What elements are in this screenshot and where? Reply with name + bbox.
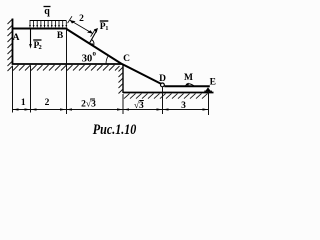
svg-text:E: E [210, 78, 216, 88]
svg-text:q: q [44, 6, 50, 17]
dimension 2 along incline: extension ticks [68, 16, 95, 36]
svg-text:1: 1 [105, 25, 108, 32]
svg-text:2: 2 [39, 44, 42, 51]
step face hatching [119, 67, 124, 94]
lower ground hatching [124, 94, 208, 99]
dimension line [13, 109, 209, 111]
moment M arc [186, 84, 194, 86]
distributed load q line [30, 20, 67, 22]
wall support hatching [8, 19, 13, 71]
dimension 2 arrowheads [70, 20, 93, 33]
upper ground hatching [13, 65, 120, 71]
load label q [44, 6, 51, 17]
svg-text:2: 2 [45, 98, 50, 108]
svg-text:√3: √3 [134, 100, 144, 111]
upper ground line [12, 63, 122, 65]
lower ground line [123, 92, 214, 94]
svg-text:30: 30 [82, 53, 93, 64]
svg-text:2√3: 2√3 [81, 98, 96, 109]
svg-text:o: o [93, 50, 97, 58]
support at E [205, 87, 210, 91]
force P2 [29, 30, 32, 49]
svg-text:1: 1 [21, 98, 26, 108]
distributed load q arrows [30, 21, 66, 26]
force P2 label [33, 40, 42, 51]
dimension 2 line [70, 20, 93, 33]
force P1 [89, 28, 98, 43]
dimension arrowheads [13, 108, 209, 110]
svg-text:D: D [159, 74, 166, 84]
extension lines [13, 30, 209, 115]
svg-text:2: 2 [79, 14, 84, 24]
inclined member B-C-D [67, 29, 162, 84]
force P1 label [100, 21, 109, 32]
right-angle mark at P1 [91, 40, 94, 46]
wall line [12, 19, 14, 65]
svg-text:M: M [184, 73, 193, 83]
hinge D circle [161, 83, 165, 87]
svg-text:A: A [13, 33, 20, 43]
step face at C [122, 64, 124, 93]
svg-text:Рис.1.10: Рис.1.10 [93, 122, 137, 138]
angle 30 arc [106, 56, 108, 64]
svg-text:3: 3 [181, 101, 186, 111]
svg-text:B: B [57, 31, 64, 41]
beam DE [164, 85, 209, 87]
svg-text:C: C [123, 54, 130, 64]
beam AB [12, 28, 68, 30]
